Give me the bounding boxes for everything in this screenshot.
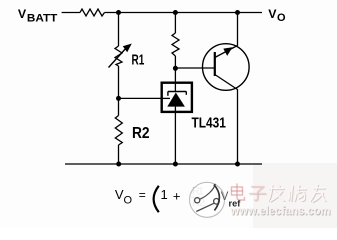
svg-text:1: 1 — [161, 187, 168, 202]
wire: cathode node to transistor base — [175, 67, 214, 69]
svg-text:TL431: TL431 — [192, 114, 226, 131]
wire: feedback node to TL431 REF pin — [119, 97, 161, 99]
junction: R2 at bottom rail — [116, 162, 121, 167]
junction: transistor top lead at rail — [235, 10, 240, 15]
svg-text:R1: R1 — [132, 53, 145, 69]
watermark char fa — [269, 184, 285, 202]
junction: cathode node / base drive — [173, 66, 178, 71]
watermark background tint (bottom-right) — [253, 163, 337, 228]
svg-text:O: O — [124, 195, 133, 207]
svg-text:R2: R2 — [132, 125, 150, 142]
watermark char shao — [289, 185, 307, 201]
net label VO — [268, 7, 286, 24]
svg-text:V: V — [268, 7, 277, 21]
svg-text:www.elecfans.com: www.elecfans.com — [230, 206, 331, 218]
svg-text:=: = — [139, 188, 146, 202]
svg-text:V: V — [221, 191, 229, 203]
formula: closing paren and Vref — [214, 185, 241, 211]
watermark char you — [311, 185, 326, 203]
cathode bias resistor (vertical, unlabeled) — [172, 13, 179, 69]
junction: top of cathode resistor — [173, 10, 178, 15]
junction: TL431 anode at bottom rail — [173, 162, 178, 167]
svg-text:V: V — [18, 7, 27, 21]
wire: VBATT lead to series resistor — [62, 12, 80, 14]
junction: feedback node (R1/R2/REF) — [116, 96, 121, 101]
svg-text:BATT: BATT — [27, 13, 57, 25]
junction: top of R1 — [116, 10, 121, 15]
variable resistor R1 — [109, 13, 132, 99]
formula: VO = (1 + R1/R2) Vref — [115, 186, 181, 212]
junction: transistor bottom lead at rail — [235, 162, 240, 167]
svg-text:O: O — [277, 12, 286, 24]
shunt regulator U1 TL431 — [161, 68, 192, 164]
wire: top rail to VO — [105, 12, 263, 14]
transistor Q1 (shunt boost) — [203, 13, 250, 165]
net label VBATT — [18, 7, 57, 25]
resistor R2 — [115, 98, 122, 164]
watermark logo circle — [190, 182, 225, 217]
wire: bottom rail (ground return) — [65, 163, 262, 165]
watermark url text — [230, 206, 332, 219]
series resistor (top, unlabeled) — [80, 9, 105, 16]
formula fraction R1/R2 (faint under logo) — [191, 185, 206, 209]
svg-text:+: + — [173, 188, 181, 203]
watermark char zi — [250, 187, 267, 201]
watermark char dian — [232, 184, 245, 200]
